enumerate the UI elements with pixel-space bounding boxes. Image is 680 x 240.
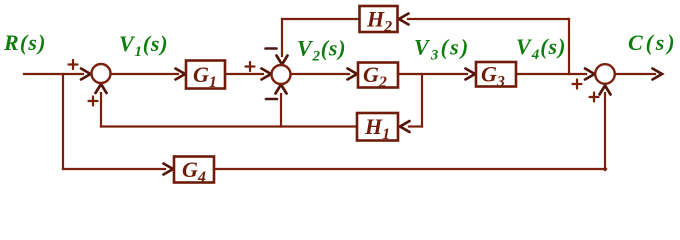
summer S1 xyxy=(92,64,111,83)
wire vertical up into summer S3 bottom xyxy=(604,93,606,170)
arrowhead into summer S2 bottom xyxy=(276,85,287,94)
plus sign at summer S3 bottom input xyxy=(590,96,599,98)
arrowhead into G3 xyxy=(466,69,476,80)
wire G3 to summer S3 xyxy=(517,73,586,75)
wire branch node at x=63 down to G4 row xyxy=(62,74,64,169)
arrowhead into H2 (pointing left) xyxy=(399,14,409,25)
block G2 box xyxy=(358,63,398,88)
minus sign at summer S2 top input xyxy=(266,47,277,50)
wire summer S3 output to C(s) xyxy=(615,73,655,75)
arrowhead into G4 xyxy=(164,164,174,175)
arrowhead into summer S3 left xyxy=(585,69,595,80)
arrowhead into summer S1 left xyxy=(81,69,91,80)
block H2 box xyxy=(360,6,398,32)
block G4 box xyxy=(174,157,214,183)
block G1 box xyxy=(186,61,225,89)
summer S3 xyxy=(595,64,615,84)
wire H1 row up into summer S1 bottom xyxy=(100,93,102,127)
svg-text:C(s): C(s) xyxy=(628,30,678,55)
wire G4 output to x=605 xyxy=(215,168,606,170)
svg-text:V2(s): V2(s) xyxy=(297,36,346,65)
arrowhead into summer S2 top xyxy=(277,56,288,65)
wire H2 output left xyxy=(282,18,358,20)
block G3 box xyxy=(476,62,516,87)
wire H1 output left xyxy=(101,125,356,127)
block H1 box xyxy=(357,113,398,141)
plus sign at summer S3 left input xyxy=(573,83,582,85)
wire bottom row to G4 xyxy=(63,168,165,170)
minus sign at summer S2 bottom input xyxy=(266,98,277,101)
arrowhead into summer S3 bottom xyxy=(600,86,611,95)
wire summer S2 to G2 xyxy=(291,73,349,75)
wire G2 to G3 xyxy=(399,73,467,75)
svg-text:V4(s): V4(s) xyxy=(516,34,566,63)
arrowhead into summer S1 bottom xyxy=(96,84,107,93)
summer S2 xyxy=(272,65,291,84)
wire input R(s) to summer S1 xyxy=(24,73,83,75)
wire G1 to summer S2 xyxy=(226,73,263,75)
arrowhead output C(s) xyxy=(653,69,663,80)
arrowhead into G1 xyxy=(176,69,186,80)
arrowhead into summer S2 left xyxy=(262,69,272,80)
arrowhead into G2 xyxy=(348,69,358,80)
wire branch V3 node down xyxy=(421,74,423,127)
arrowhead into H1 (pointing left) xyxy=(400,121,410,132)
svg-text:V3(s): V3(s) xyxy=(414,35,470,64)
wire H2 row to H2 input xyxy=(408,18,569,20)
wire H2 output down into summer S2 top xyxy=(281,19,283,56)
plus sign at summer S1 bottom input xyxy=(89,100,98,102)
wire V3 branch into H1 xyxy=(409,125,422,127)
svg-text:V1(s): V1(s) xyxy=(119,31,168,60)
wire H1 row branch up into summer S2 bottom xyxy=(280,94,282,127)
wire summer S1 to G1 xyxy=(111,73,178,75)
plus sign at summer S1 left input xyxy=(69,63,78,65)
svg-text:R(s): R(s) xyxy=(3,30,47,55)
wire branch V4 node up to H2 row xyxy=(568,19,570,74)
plus sign at summer S2 left input xyxy=(246,65,255,67)
